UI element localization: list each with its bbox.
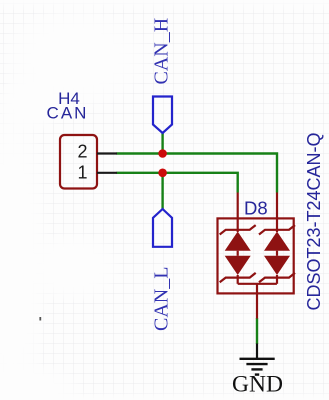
wire CAN_H horizontal from H4 pin 2 to diode right pin bbox=[117, 154, 278, 193]
wire CAN_L horizontal from H4 pin 1 to diode left pin bbox=[117, 173, 238, 193]
diode D8 pin 3 (center tap down through box edge) bbox=[256, 284, 258, 319]
TVS right: lower diode triangle (points down) bbox=[264, 256, 290, 275]
port CAN_H bbox=[153, 97, 172, 134]
wire from port CAN_H down to junction bbox=[161, 133, 163, 154]
junction on CAN_L net bbox=[158, 169, 167, 178]
speck artifact bbox=[39, 317, 41, 321]
pin 1 stub bbox=[97, 172, 117, 174]
TVS left: lower diode triangle (points down) bbox=[225, 256, 251, 275]
TVS left: stem below bbox=[237, 275, 239, 284]
svg-text:GND: GND bbox=[232, 372, 283, 398]
net label CAN_H bbox=[151, 18, 173, 85]
TVS left: upper diode triangle (points up) bbox=[225, 232, 251, 251]
ground bar 2 bbox=[246, 363, 267, 365]
TVS right: middle link bbox=[276, 251, 278, 256]
TVS right: upper diode triangle (points up) bbox=[264, 232, 290, 251]
ground bar 1 bbox=[240, 358, 275, 360]
svg-text:1: 1 bbox=[77, 162, 87, 182]
TVS left: top cathode bar bbox=[220, 225, 256, 234]
junction on CAN_H net bbox=[158, 149, 167, 158]
ground bar 3 bbox=[251, 368, 262, 370]
TVS right: top cathode bar bbox=[259, 225, 295, 234]
ground symbol stem bbox=[256, 344, 258, 359]
TVS left: bottom cathode bar bbox=[220, 273, 256, 282]
internal connector joining both columns bbox=[238, 283, 277, 285]
net label CAN_L bbox=[151, 267, 173, 331]
svg-text:CAN: CAN bbox=[47, 104, 89, 123]
TVS right: stem below bbox=[276, 275, 278, 284]
designator H4 bbox=[58, 89, 80, 108]
comment CDSOT23-T24CAN-Q bbox=[304, 132, 324, 310]
svg-text:CDSOT23-T24CAN-Q: CDSOT23-T24CAN-Q bbox=[304, 132, 324, 310]
pin number 1 bbox=[77, 162, 87, 182]
svg-text:CAN_L: CAN_L bbox=[151, 267, 173, 331]
svg-text:D8: D8 bbox=[244, 198, 268, 219]
diode D8 pin 1 (left, from wire into box) bbox=[237, 193, 239, 233]
connector H4 body bbox=[60, 135, 97, 189]
diode D8 pin 2 (right, from wire into box) bbox=[276, 193, 278, 233]
diode D8 body box bbox=[218, 218, 294, 293]
svg-text:2: 2 bbox=[77, 142, 87, 162]
svg-text:CAN_H: CAN_H bbox=[151, 18, 173, 85]
net label GND bbox=[232, 372, 283, 398]
TVS left: middle link bbox=[237, 251, 239, 256]
pin 2 stub bbox=[97, 152, 117, 154]
pin number 2 bbox=[77, 142, 87, 162]
wire from diode pin 3 to ground bbox=[256, 318, 258, 344]
designator D8 bbox=[244, 198, 268, 219]
wire from junction down to port CAN_L bbox=[161, 173, 163, 209]
TVS right: bottom cathode bar bbox=[259, 273, 295, 282]
ground bar 4 bbox=[255, 373, 259, 375]
comment CAN bbox=[47, 104, 89, 123]
port CAN_L bbox=[153, 209, 172, 247]
